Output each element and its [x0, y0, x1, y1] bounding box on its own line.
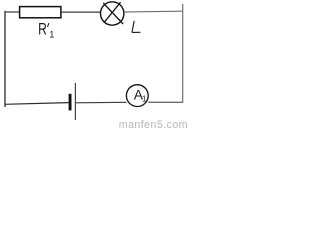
- svg-text:R: R: [38, 20, 47, 39]
- svg-text:manfen5.com: manfen5.com: [119, 119, 188, 130]
- svg-text:1: 1: [142, 95, 146, 104]
- svg-text:1: 1: [49, 29, 54, 39]
